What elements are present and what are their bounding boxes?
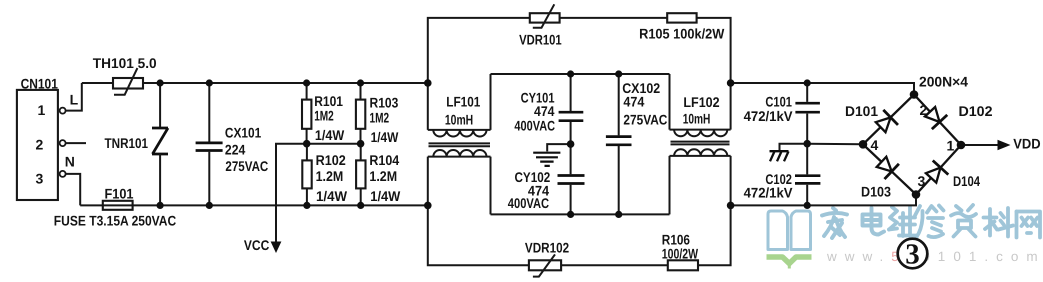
wire bottom N rail — [80, 204, 428, 206]
svg-text:2: 2 — [36, 137, 44, 153]
svg-text:www.520101.com: www.520101.com — [826, 249, 1043, 264]
wire top L rail — [82, 82, 428, 84]
svg-text:VDR101: VDR101 — [519, 32, 562, 48]
svg-text:D102: D102 — [959, 103, 993, 119]
resistor R101 — [302, 83, 345, 144]
svg-text:TH101 5.0: TH101 5.0 — [93, 55, 157, 71]
capacitor C101 — [744, 83, 820, 144]
varistor VDR102 — [525, 239, 569, 276]
thermistor TH101 — [93, 55, 157, 95]
junction dots bridge nodes — [859, 90, 966, 199]
watermark logo book icon — [767, 211, 812, 269]
varistor TNR101 — [105, 83, 169, 205]
svg-text:1/4W: 1/4W — [370, 188, 401, 204]
wire bottom right rail — [731, 195, 916, 206]
svg-text:1: 1 — [38, 102, 46, 118]
resistor R106 — [662, 231, 699, 270]
svg-text:275VAC: 275VAC — [225, 158, 268, 174]
wire bottom VDR loop — [428, 205, 731, 265]
svg-text:C101: C101 — [765, 93, 792, 109]
pin 1 circle — [60, 108, 66, 114]
capacitor CX101 — [196, 83, 269, 205]
svg-text:LF101: LF101 — [446, 93, 480, 109]
svg-text:VCC: VCC — [244, 237, 269, 253]
capacitor C102 — [744, 144, 821, 206]
wire divider mid rail — [276, 144, 361, 242]
svg-text:VDD: VDD — [1013, 135, 1040, 151]
svg-text:CN101: CN101 — [21, 75, 58, 91]
fuse F101 — [54, 185, 176, 228]
diode D101 — [873, 110, 898, 135]
svg-text:D103: D103 — [861, 183, 891, 199]
svg-text:R104: R104 — [369, 152, 399, 168]
svg-text:3: 3 — [905, 239, 920, 271]
svg-text:275VAC: 275VAC — [623, 112, 667, 128]
svg-text:10mH: 10mH — [683, 110, 711, 126]
svg-text:F101: F101 — [105, 185, 134, 201]
choke LF101 — [428, 74, 491, 214]
svg-text:400VAC: 400VAC — [508, 195, 549, 211]
svg-text:1/4W: 1/4W — [316, 188, 348, 204]
diode D103 — [874, 154, 899, 179]
svg-text:474: 474 — [623, 94, 644, 110]
svg-text:R105 100k/2W: R105 100k/2W — [639, 25, 725, 41]
svg-text:200N×4: 200N×4 — [919, 73, 968, 89]
svg-text:TNR101: TNR101 — [105, 135, 149, 151]
svg-text:10mH: 10mH — [445, 112, 473, 128]
watermark char dian — [863, 208, 885, 235]
wire filter box top — [491, 73, 670, 75]
pin 2 circle — [60, 140, 66, 146]
wire top VDR loop — [428, 18, 731, 83]
svg-text:D104: D104 — [953, 173, 980, 189]
bridge rectifier frame — [863, 95, 961, 195]
svg-text:3: 3 — [36, 171, 44, 187]
svg-text:1M2: 1M2 — [370, 110, 390, 126]
svg-text:L: L — [70, 91, 79, 107]
junction dots filter box — [567, 70, 811, 218]
watermark circled 3 — [898, 239, 928, 271]
svg-text:224: 224 — [225, 141, 246, 157]
svg-text:R103: R103 — [370, 95, 399, 111]
capacitor CY101 — [514, 74, 583, 144]
svg-text:400VAC: 400VAC — [514, 117, 555, 133]
VCC arrow — [244, 237, 282, 253]
svg-text:FUSE T3.15A 250VAC: FUSE T3.15A 250VAC — [54, 213, 176, 229]
pin 3 circle — [60, 171, 66, 177]
wire filter box bottom — [491, 213, 670, 215]
svg-text:D101: D101 — [845, 103, 878, 119]
wire pin1 to L line — [66, 83, 82, 111]
watermark char wei — [889, 207, 916, 236]
wire top right rail — [731, 83, 914, 95]
svg-text:472/1kV: 472/1kV — [744, 108, 794, 124]
earth ground — [533, 144, 570, 166]
svg-text:1M2: 1M2 — [314, 107, 334, 123]
svg-text:1.2M: 1.2M — [369, 168, 397, 184]
wire pin2 stub — [66, 142, 86, 144]
wire node4 link — [807, 143, 863, 146]
svg-text:4: 4 — [871, 137, 879, 153]
svg-text:1: 1 — [947, 138, 955, 154]
svg-text:472/1kV: 472/1kV — [744, 185, 794, 201]
watermark char jia — [822, 208, 847, 238]
svg-text:1/4W: 1/4W — [371, 129, 399, 145]
watermark char wang — [1017, 212, 1041, 238]
svg-text:N: N — [65, 154, 75, 170]
connector CN101 — [17, 75, 58, 200]
junction dots divider mid rail — [303, 140, 365, 148]
watermark char xiu — [915, 206, 944, 238]
resistor R103 — [356, 83, 399, 145]
svg-text:R102: R102 — [316, 152, 346, 168]
svg-text:3: 3 — [918, 173, 926, 189]
resistor R104 — [356, 144, 401, 206]
capacitor CX102 — [606, 74, 668, 214]
chassis ground — [770, 144, 808, 162]
svg-text:2: 2 — [920, 102, 928, 118]
resistor R102 — [302, 144, 347, 206]
VDD output arrow — [961, 135, 1041, 151]
junction dots top rail — [157, 79, 811, 87]
svg-text:1.2M: 1.2M — [316, 168, 344, 184]
svg-text:LF102: LF102 — [683, 94, 719, 110]
svg-text:VDR102: VDR102 — [525, 239, 569, 255]
capacitor CY102 — [508, 144, 585, 214]
watermark char zi — [951, 205, 976, 237]
choke LF102 — [670, 74, 731, 214]
diode D102 — [922, 105, 947, 130]
svg-text:100/2W: 100/2W — [662, 246, 699, 262]
svg-text:CX101: CX101 — [225, 124, 261, 140]
svg-text:1/4W: 1/4W — [315, 127, 345, 143]
watermark char liao — [984, 208, 1014, 237]
varistor VDR101 — [519, 4, 562, 47]
wire pin3 to N line — [66, 174, 81, 206]
diode D104 — [923, 161, 948, 185]
resistor R105 — [639, 13, 725, 41]
junction dots bottom rail — [157, 202, 811, 210]
